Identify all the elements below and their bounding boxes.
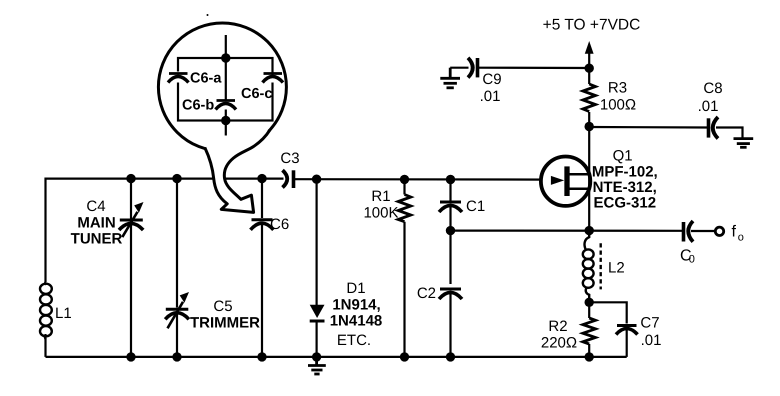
wire C7 branch <box>589 302 627 323</box>
svg-text:220Ω: 220Ω <box>541 335 577 352</box>
svg-text:.01: .01 <box>698 98 719 115</box>
node source rail <box>585 226 594 235</box>
wire C6 branch <box>261 179 263 218</box>
wire right rail <box>588 53 590 84</box>
capacitor C6 <box>251 220 274 230</box>
resistor R2 <box>583 318 596 344</box>
capacitor C8 <box>709 117 719 139</box>
capacitor C6-a <box>168 72 189 83</box>
inductor L2 <box>583 231 594 303</box>
svg-text:1N914,: 1N914, <box>332 297 380 314</box>
wire left rail lower <box>44 334 46 357</box>
wire C1/C2 branch <box>449 180 451 201</box>
wire bottom ground rail <box>46 356 627 358</box>
wire C9 rail <box>450 67 468 69</box>
svg-text:.01: .01 <box>641 332 662 349</box>
svg-text:+5 TO +7VDC: +5 TO +7VDC <box>543 17 641 34</box>
node R3 bottom <box>585 122 594 131</box>
wire source rail <box>451 230 684 232</box>
capacitor C6-b <box>216 101 237 110</box>
node source C1/C2 <box>446 226 455 235</box>
svg-text:R1: R1 <box>371 188 390 205</box>
svg-text:C2: C2 <box>417 285 436 302</box>
label Co <box>680 248 695 266</box>
label C8 .01 <box>698 80 723 115</box>
svg-text:MAIN: MAIN <box>77 215 115 232</box>
node dots on top rail <box>126 174 135 183</box>
resistor R1 <box>403 179 405 194</box>
svg-text:C4: C4 <box>86 198 105 215</box>
capacitor C2 <box>439 289 462 299</box>
svg-text:C3: C3 <box>280 150 299 167</box>
label D1 1N914 1N4148 ETC. <box>330 280 383 349</box>
diode D1 <box>310 305 325 318</box>
svg-text:NTE-312,: NTE-312, <box>593 179 657 196</box>
svg-text:D1: D1 <box>346 280 365 297</box>
svg-text:ECG-312: ECG-312 <box>594 195 657 212</box>
balloon callout circle <box>158 23 286 151</box>
label Q1 MPF-102 NTE-312 ECG-312 <box>592 148 658 212</box>
svg-text:C9: C9 <box>482 71 501 88</box>
svg-text:f: f <box>732 224 737 241</box>
ground at C8 <box>716 128 743 138</box>
balloon center line <box>225 35 227 100</box>
svg-text:Q1: Q1 <box>613 148 633 165</box>
inductor L1 <box>40 282 52 339</box>
label C5 TRIMMER <box>190 298 260 332</box>
wire C4 branch <box>130 179 132 219</box>
balloon funnel tail and hollow arrow <box>205 130 270 213</box>
transistor Q1 <box>541 157 590 206</box>
node balloon top <box>221 53 230 62</box>
svg-text:C7: C7 <box>640 315 659 332</box>
wire to output terminal <box>691 230 715 232</box>
label R1 100K <box>363 188 398 222</box>
label R2 220ohm <box>541 318 577 352</box>
capacitor C5 (trimmer) <box>165 309 189 319</box>
svg-text:1N4148: 1N4148 <box>330 313 383 330</box>
svg-text:C6: C6 <box>270 216 289 233</box>
svg-text:C6-b: C6-b <box>182 98 214 114</box>
label C7 .01 <box>640 315 661 350</box>
capacitor C3 <box>283 170 294 188</box>
output terminal <box>715 227 723 235</box>
svg-text:100K: 100K <box>363 205 398 222</box>
svg-text:100Ω: 100Ω <box>600 97 636 114</box>
wire C5 branch <box>176 179 178 308</box>
svg-text:R2: R2 <box>548 318 567 335</box>
svg-text:L1: L1 <box>55 305 72 322</box>
wire C8 rail <box>589 126 707 129</box>
resistor R3 <box>583 84 596 112</box>
wire R2 <box>588 302 590 318</box>
ground below D1 <box>308 357 326 374</box>
svg-text:R3: R3 <box>608 80 627 97</box>
ground at C9 <box>440 68 460 88</box>
capacitor C4 (variable, main tuner) <box>119 220 143 230</box>
L2 slug dashed line <box>600 243 602 289</box>
node L2 bottom <box>585 298 594 307</box>
svg-text:.01: .01 <box>480 88 501 105</box>
svg-text:C8: C8 <box>703 80 722 97</box>
capacitor C7 <box>616 326 638 335</box>
wire top gate rail right of C3 <box>295 178 552 181</box>
svg-text:MPF-102,: MPF-102, <box>592 164 658 181</box>
wire top gate rail left section <box>46 179 284 282</box>
power arrow <box>585 41 594 54</box>
node gate C1 <box>446 175 455 184</box>
svg-text:C5: C5 <box>213 298 232 315</box>
capacitor C9 <box>468 58 478 78</box>
svg-text:C1: C1 <box>466 198 485 215</box>
node dots on bottom rail <box>126 352 135 361</box>
node balloon bottom <box>221 116 230 125</box>
svg-text:TUNER: TUNER <box>71 231 123 248</box>
capacitor C1 <box>439 202 462 212</box>
balloon inner rectangle <box>178 58 273 121</box>
svg-text:ETC.: ETC. <box>337 332 371 349</box>
svg-text:C6-a: C6-a <box>190 71 222 87</box>
svg-text:TRIMMER: TRIMMER <box>190 315 260 332</box>
printing speck above balloon <box>207 14 209 16</box>
label C4 MAIN TUNER <box>71 198 123 248</box>
label fo <box>732 224 744 244</box>
svg-text:0: 0 <box>689 254 695 266</box>
svg-text:o: o <box>738 232 744 244</box>
capacitor C6-c <box>263 74 284 83</box>
label R3 100ohm <box>600 80 636 114</box>
svg-text:L2: L2 <box>608 260 625 277</box>
capacitor Co <box>684 221 694 242</box>
label C9 .01 <box>480 71 502 105</box>
svg-text:C6-c: C6-c <box>241 86 272 102</box>
node R2 bottom <box>585 352 594 361</box>
wire D1 branch <box>316 179 318 305</box>
node top supply <box>585 63 594 72</box>
